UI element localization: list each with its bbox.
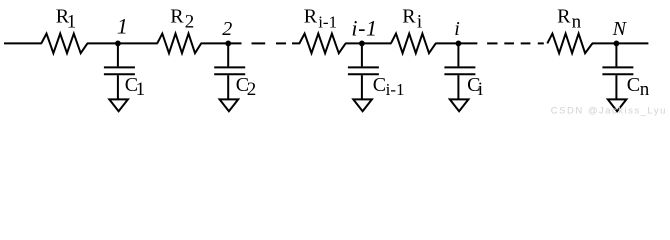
wire node i segment	[435, 42, 477, 44]
label Ci-1	[373, 74, 405, 99]
label Rn	[557, 6, 582, 33]
label Ci	[467, 74, 483, 100]
svg-text:2: 2	[185, 12, 195, 33]
wire left input to R1	[4, 42, 42, 44]
svg-text:1: 1	[136, 79, 146, 100]
svg-text:R: R	[402, 6, 416, 28]
label Ri-1	[304, 6, 337, 32]
resistor R1	[41, 34, 87, 54]
resistor Rn	[547, 34, 592, 54]
svg-text:n: n	[572, 12, 582, 33]
capacitor C2 body	[214, 43, 245, 99]
label C1	[125, 74, 145, 100]
svg-text:N: N	[612, 18, 628, 40]
svg-text:2: 2	[222, 18, 232, 40]
svg-text:R: R	[304, 6, 318, 28]
svg-text:R: R	[170, 6, 184, 28]
ground under Ci-1	[353, 99, 372, 111]
label C2	[236, 74, 256, 100]
wire Ri-1 to Ri through node i-1	[345, 42, 391, 44]
node N junction dot	[614, 41, 620, 47]
ground under Ci	[450, 99, 469, 111]
svg-text:i-1: i-1	[318, 13, 337, 32]
node 2 junction dot	[225, 41, 231, 47]
svg-text:i: i	[454, 18, 460, 40]
node 1 junction dot	[115, 41, 121, 47]
node i junction dot	[456, 41, 462, 47]
node i-1 junction dot	[359, 41, 365, 47]
wire Rn to right end through node N	[592, 42, 649, 44]
svg-text:2: 2	[247, 79, 256, 100]
svg-text:i: i	[417, 12, 422, 33]
capacitor Ci body	[444, 43, 475, 99]
ground under C2	[220, 99, 239, 111]
dashed wire after node i	[487, 42, 497, 44]
label R1	[56, 6, 77, 33]
ground under Cn	[608, 99, 627, 111]
resistor Ri-1 with entry stub	[292, 34, 346, 54]
label R2	[170, 6, 194, 33]
ground under C1	[109, 99, 128, 111]
wire node 2 segment	[201, 42, 242, 44]
svg-text:CSDN @Jackiss_Lyu: CSDN @Jackiss_Lyu	[551, 105, 667, 116]
capacitor Ci-1 body	[348, 43, 379, 99]
resistor Ri	[391, 34, 436, 54]
svg-text:1: 1	[117, 14, 128, 39]
label Cn	[627, 74, 650, 100]
svg-text:C: C	[373, 74, 386, 96]
svg-text:i-1: i-1	[351, 16, 377, 41]
resistor R2	[157, 34, 201, 54]
svg-text:R: R	[557, 6, 571, 28]
label Ri	[402, 6, 422, 33]
svg-text:n: n	[640, 79, 650, 100]
dashed wire after node 2	[252, 42, 266, 44]
svg-text:i: i	[478, 79, 483, 100]
svg-text:C: C	[627, 74, 640, 96]
capacitor C1 body	[104, 43, 135, 99]
capacitor Cn body	[602, 43, 633, 99]
svg-text:1: 1	[67, 12, 77, 33]
svg-text:i-1: i-1	[386, 80, 405, 99]
wire R1 to R2 through node 1	[87, 42, 158, 44]
